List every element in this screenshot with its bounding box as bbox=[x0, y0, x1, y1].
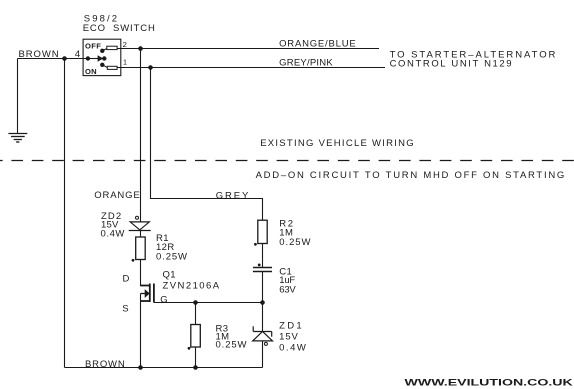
switch contact ON (throw to pin 1) bbox=[100, 63, 104, 67]
svg-text:2: 2 bbox=[123, 40, 127, 49]
separator dashed line bbox=[0, 160, 574, 162]
svg-text:0.25W: 0.25W bbox=[279, 237, 310, 248]
capacitor C1 bbox=[253, 264, 272, 303]
resistor R3 bbox=[188, 303, 201, 368]
node orange tap bbox=[138, 46, 143, 51]
ground bbox=[8, 134, 27, 143]
node grey tap bbox=[148, 65, 153, 70]
node R3/brown bbox=[193, 365, 198, 370]
node gate/C1/ZD1 bbox=[260, 300, 265, 305]
wire grey vertical to R2 bbox=[151, 68, 263, 221]
svg-text:CONTROL UNIT N129: CONTROL UNIT N129 bbox=[390, 59, 512, 70]
resistor R2 bbox=[254, 220, 267, 267]
svg-text:ON: ON bbox=[85, 67, 97, 76]
svg-text:ZD1: ZD1 bbox=[279, 321, 302, 332]
wire ground drop bbox=[17, 59, 19, 134]
wire pin4 into switch bbox=[65, 58, 88, 60]
wire gate line bbox=[154, 302, 263, 304]
transistor Q1 bbox=[141, 284, 154, 368]
svg-text:GREY: GREY bbox=[216, 190, 249, 201]
svg-text:ADD–ON CIRCUIT TO TURN MHD OFF: ADD–ON CIRCUIT TO TURN MHD OFF ON STARTI… bbox=[256, 170, 565, 181]
switch common contact pin 4 bbox=[86, 56, 90, 60]
svg-text:ORANGE: ORANGE bbox=[94, 190, 139, 201]
switch pole node bbox=[102, 56, 106, 60]
zener ZD2 bbox=[129, 216, 151, 237]
svg-text:ECO SWITCH: ECO SWITCH bbox=[83, 23, 155, 34]
wire orange/blue (pin 2 to N129) bbox=[117, 48, 379, 50]
svg-text:BROWN: BROWN bbox=[19, 49, 59, 60]
svg-text:1: 1 bbox=[123, 58, 127, 67]
svg-text:ZVN2106A: ZVN2106A bbox=[163, 281, 220, 292]
wire R1 to drain bbox=[140, 260, 142, 287]
svg-text:G: G bbox=[160, 295, 167, 306]
wire brown left vertical bbox=[64, 59, 66, 368]
svg-text:S: S bbox=[122, 303, 128, 314]
wire brown top bbox=[18, 58, 89, 60]
wire grey/pink (pin 1 to N129) bbox=[117, 67, 385, 69]
svg-text:0.25W: 0.25W bbox=[156, 252, 187, 263]
node brown junction bbox=[62, 56, 67, 61]
zener ZD1 bbox=[253, 303, 273, 368]
svg-text:EXISTING VEHICLE WIRING: EXISTING VEHICLE WIRING bbox=[260, 138, 414, 149]
switch contact OFF (throw to pin 2) bbox=[100, 49, 104, 53]
switch S98/2 box bbox=[83, 39, 121, 75]
svg-text:0.4W: 0.4W bbox=[101, 229, 125, 240]
switch pole arrow bbox=[88, 58, 100, 60]
svg-text:Q1: Q1 bbox=[163, 270, 176, 281]
svg-text:15V: 15V bbox=[279, 331, 298, 342]
resistor R1 bbox=[132, 237, 146, 262]
svg-text:BROWN: BROWN bbox=[85, 359, 125, 370]
svg-text:OFF: OFF bbox=[85, 41, 101, 50]
svg-text:GREY/PINK: GREY/PINK bbox=[279, 57, 333, 68]
node gate/R3 bbox=[193, 300, 198, 305]
wire orange vertical bbox=[140, 49, 142, 222]
svg-text:D: D bbox=[123, 274, 130, 285]
svg-text:ORANGE/BLUE: ORANGE/BLUE bbox=[279, 39, 356, 50]
svg-text:63V: 63V bbox=[279, 284, 296, 295]
svg-text:0.25W: 0.25W bbox=[216, 340, 247, 351]
wire brown bottom bbox=[65, 367, 263, 369]
svg-text:0.4W: 0.4W bbox=[279, 342, 306, 353]
node source/brown bbox=[138, 365, 143, 370]
svg-text:WWW.EVILUTION.CO.UK: WWW.EVILUTION.CO.UK bbox=[405, 376, 574, 387]
